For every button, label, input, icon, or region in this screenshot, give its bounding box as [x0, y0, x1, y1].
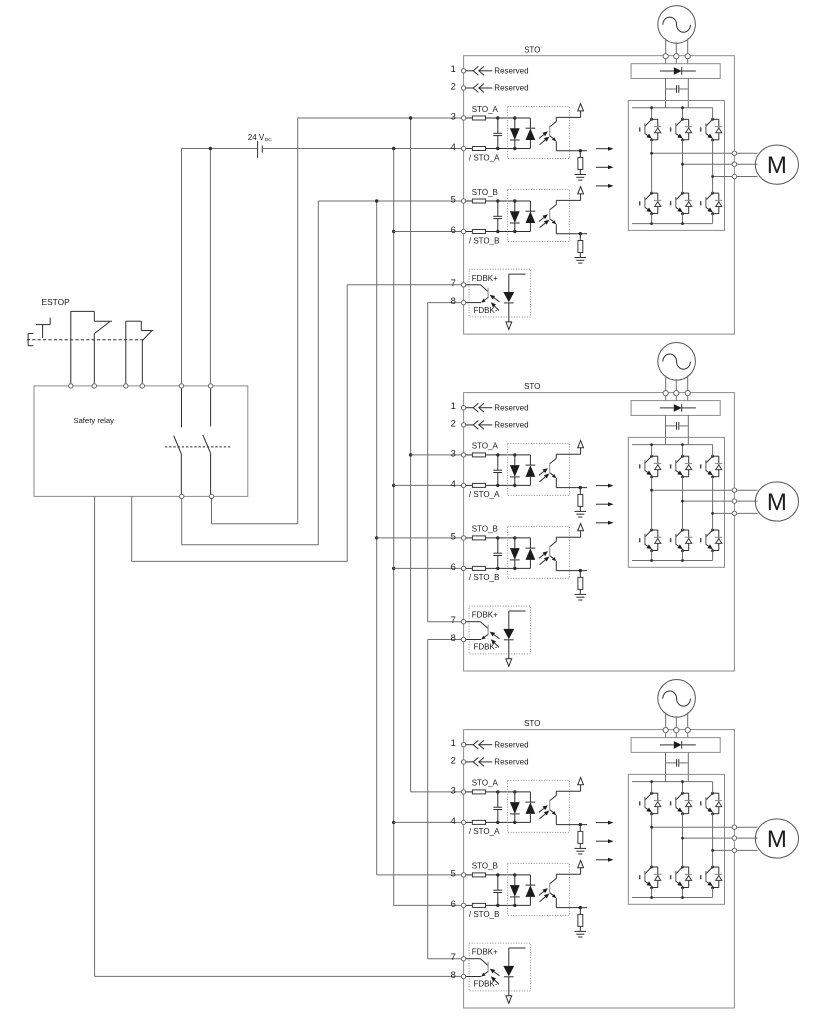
drive 3 AC input terminal 3: [685, 728, 690, 733]
drive 3 pin 2 terminal: [461, 760, 465, 764]
drive 1 pin 6 number: [451, 224, 456, 235]
drive 2 STO_A diode junctions: [513, 453, 516, 487]
drive 2 motor M: [755, 482, 798, 521]
drive 1 pin 4 number: [451, 141, 456, 152]
drive 1 STO_B output wire: [556, 232, 587, 235]
drive 3 STO_B supply arrow: [556, 861, 583, 875]
drive 1 STO_A series resistor -: [466, 147, 531, 151]
drive 1 pin 3 number: [451, 110, 456, 121]
drive 1 pin 2 Reserved label: [494, 84, 528, 93]
drive 2 FDBK - label: [474, 643, 498, 652]
drive 2 STO_A light arrows: [539, 468, 549, 482]
drive 3 inverter DC+ rail: [632, 781, 713, 783]
wire drive2 pin3 from bus: [411, 454, 462, 456]
relay contacts link (dashed): [165, 446, 231, 448]
drive 1 STO_A antiparallel diode down: [510, 118, 520, 149]
drive 3 pin 4 terminal: [461, 820, 465, 824]
drive 1 STO_A input filter capacitor: [493, 118, 502, 149]
junction STO_B at drive1 pin5: [375, 199, 378, 202]
drive 3 FDBK box: [469, 943, 530, 991]
drive 2 wire DC+ link: [665, 415, 667, 444]
svg-text:STO_A: STO_A: [472, 779, 499, 788]
wire drive2 pin6 from bus: [394, 567, 462, 569]
relay top terminal 3: [124, 384, 128, 388]
svg-text:/ STO_A: / STO_A: [469, 827, 500, 836]
drive 3 leg 1 mid wires: [651, 814, 653, 898]
drive 2 FDBK phototransistor: [466, 622, 488, 640]
drive 3 STO_B label: [472, 862, 498, 871]
drive 1 STO_B cap junctions: [496, 199, 499, 233]
drive 3 pin 5 number: [451, 867, 456, 878]
svg-text:STO_A: STO_A: [472, 105, 499, 114]
drive 3 motor terminal 1: [732, 825, 736, 829]
drive 3 STO_B inverse label: [469, 910, 500, 919]
drive 2 STO_B supply arrow: [556, 524, 583, 538]
drive 1 STO_B LED diode up: [526, 201, 536, 232]
svg-text:STO_B: STO_B: [472, 525, 498, 534]
drive 2 IGBT leg 1 high: [640, 455, 662, 479]
drive 2 motor lead 2: [737, 500, 758, 502]
drive 2 IGBT leg 2 high: [671, 455, 693, 479]
drive 1 pin 1 number: [451, 63, 456, 74]
drive 1 IGBT leg 1 low: [640, 192, 662, 216]
drive 1 STO_B series resistor +: [466, 199, 531, 203]
drive 3 pin 1 Reserved label: [494, 740, 528, 749]
svg-text:2: 2: [451, 80, 456, 91]
drive 2 enclosure box: [464, 393, 735, 671]
relay top terminal 1: [69, 384, 73, 388]
drive 2 rectifier diode: [660, 404, 696, 412]
drive 3 wire DC- link: [687, 752, 689, 781]
junction 0V at drive2 pin4: [392, 484, 395, 487]
drive 2 gate signal arrow 2: [596, 502, 614, 506]
svg-text:7: 7: [451, 951, 456, 962]
drive 3 leg 2 rail junctions: [681, 780, 684, 899]
drive 2 leg 2 rail junctions: [681, 443, 684, 562]
svg-text:1: 1: [451, 63, 456, 74]
drive 3 motor lead 3: [737, 849, 758, 851]
junction contact2 feed: [209, 147, 212, 150]
drive 1 STO_A series resistor +: [466, 116, 531, 120]
wire drive2 pin4 from bus: [394, 484, 462, 486]
drive 3 inverter DC- rail: [632, 897, 713, 899]
drive 2 FDBK common arrow: [506, 659, 512, 667]
drive 3 STO_A antiparallel diode down: [510, 792, 520, 823]
drive 3 motor M: [755, 819, 798, 858]
svg-text:6: 6: [451, 224, 456, 235]
drive 2 STO_B output wire: [556, 569, 587, 572]
drive 1 STO_A optocoupler box: [508, 107, 570, 159]
svg-text:1: 1: [451, 737, 456, 748]
drive 1 leg 3 mid wires: [712, 140, 714, 224]
drive 3 pin 2 Reserved label: [494, 758, 528, 767]
drive 1 rectifier diode: [660, 67, 696, 75]
drive 2 STO_B inverse label: [469, 573, 500, 582]
drive 1 wire DC+ link: [665, 79, 667, 108]
drive 2 pin 2 reserved input: [466, 421, 493, 430]
drive 2 wire AC phase 3: [687, 375, 689, 400]
ESTOP pushbutton actuator: [28, 318, 50, 346]
drive 3 phase 3 node: [711, 849, 714, 852]
drive 2 wire AC phase 2: [675, 379, 677, 401]
svg-text:Reserved: Reserved: [494, 740, 528, 749]
drive 2 STO_B ground: [574, 594, 586, 600]
drive 1 DC bus capacitor: [666, 85, 689, 93]
drive 3 motor lead 2: [737, 837, 758, 839]
wire 24V rail to contact feeds: [182, 148, 394, 150]
drive 3 FDBK - label: [474, 980, 498, 989]
drive 2 DC bus capacitor: [666, 422, 689, 430]
drive 2 pin 6 terminal: [461, 566, 465, 570]
drive 1 leg 3 collector wire: [712, 108, 714, 120]
relay top terminal 6: [208, 384, 212, 388]
drive 1 STO_B ground: [574, 258, 586, 264]
svg-text:M: M: [767, 489, 787, 516]
drive 2 STO_B pulldown resistor: [578, 571, 583, 595]
drive 2 STO_A LED diode up: [526, 455, 536, 486]
svg-text:5: 5: [451, 193, 456, 204]
drive 1 phase 2 output wire: [683, 163, 735, 165]
drive 2 inverter DC+ rail: [632, 444, 713, 446]
drive 2 pin 5 terminal: [461, 536, 465, 540]
wire drive3 pin6 from bus: [394, 904, 462, 906]
24 VDC label: [248, 133, 272, 143]
drive 3 pin 1 number: [451, 737, 456, 748]
drive 1 pin 5 number: [451, 193, 456, 204]
drive 3 IGBT leg 2 low: [671, 866, 693, 890]
drive 1 FDBK LED diode: [503, 274, 525, 322]
drive 1 STO_B label: [472, 188, 498, 197]
drive 3 STO_A cap junctions: [496, 790, 499, 824]
drive 1 rectifier box: [631, 64, 720, 79]
drive 1 phase 1 node: [650, 152, 653, 155]
ESTOP label: [42, 297, 71, 307]
drive 2 pin 1 terminal: [461, 406, 465, 410]
drive 3 STO_A light arrows: [539, 805, 549, 819]
drive 2 STO_A series resistor -: [466, 483, 531, 487]
drive 2 pin 3 number: [451, 447, 456, 458]
relay bottom terminal 1: [180, 494, 184, 498]
drive 3 wire AC phase 2: [675, 716, 677, 738]
drive 3 STO_A inverse label: [469, 827, 500, 836]
drive 3 enclosure box: [464, 730, 735, 1008]
drive 2 phase 3 node: [711, 512, 714, 515]
drive 3 pin 2 reserved input: [466, 758, 493, 767]
drive 3 FDBK light arrows: [490, 969, 500, 985]
drive 3 IGBT leg 2 high: [671, 792, 693, 816]
drive 1 leg 2 rail junctions: [681, 106, 684, 225]
wire contact2 feed: [209, 149, 211, 385]
svg-text:FDBK+: FDBK+: [472, 948, 498, 957]
drive 2 phase 2 node: [681, 500, 684, 503]
drive 3 phase 1 node: [650, 826, 653, 829]
svg-text:7: 7: [451, 614, 456, 625]
drive 2 wire AC phase 1: [665, 375, 667, 400]
wire relay out1 to STO_A rail: [212, 118, 463, 524]
drive 2 leg 2 mid wires: [682, 477, 684, 561]
drive 1 motor lead 2: [737, 163, 758, 165]
drive 1 wire DC- link: [687, 79, 689, 108]
drive 1 FDBK + label: [472, 274, 498, 283]
drive 2 leg 1 collector wire: [651, 445, 653, 457]
drive 2 leg 1 rail junctions: [650, 443, 653, 562]
svg-text:2: 2: [451, 754, 456, 765]
drive 1 pin 1 Reserved label: [494, 67, 528, 76]
svg-text:3: 3: [451, 447, 456, 458]
drive 3 AC source G1: [658, 680, 696, 718]
svg-text:DC: DC: [265, 137, 272, 143]
svg-text:Reserved: Reserved: [494, 758, 528, 767]
drive 1 STO_A output wire: [556, 149, 587, 152]
drive 2 FDBK box: [469, 606, 530, 654]
svg-text:FDBK-: FDBK-: [474, 980, 498, 989]
drive 1 pin 6 terminal: [461, 229, 465, 233]
drive 2 pin 2 terminal: [461, 423, 465, 427]
drive 2 STO_A phototransistor: [550, 454, 557, 487]
drive 2 phase 1 output wire: [652, 489, 735, 491]
Safety relay label: [73, 416, 114, 425]
drive 1 STO_A pulldown resistor: [578, 151, 583, 175]
drive 3 FDBK LED diode: [503, 948, 525, 996]
drive 3 gate signal arrow 2: [596, 839, 614, 843]
bus 0V vertical: [393, 149, 395, 906]
drive 1 STO_B antiparallel diode down: [510, 201, 520, 232]
drive 1 FDBK - label: [474, 306, 498, 315]
drive 1 leg 1 collector wire: [651, 108, 653, 120]
drive 3 motor terminal 3: [732, 848, 736, 852]
drive 1 inverter DC- rail: [632, 223, 713, 225]
drive 3 STO_A diode junctions: [513, 790, 516, 824]
drive 2 pin 8 number: [451, 632, 456, 643]
drive 1 IGBT leg 1 high: [640, 118, 662, 142]
svg-text:1: 1: [451, 400, 456, 411]
relay output contact 1: [174, 388, 182, 496]
drive 3 STO_A LED diode up: [526, 792, 536, 823]
drive 3 STO_A optocoupler box: [508, 780, 570, 832]
drive 1 motor terminal 1: [732, 151, 736, 155]
drive 3 STO_B light arrows: [539, 888, 549, 902]
junction STO_B at drive2 pin5: [375, 536, 378, 539]
drive 1 pin 3 terminal: [461, 116, 465, 120]
drive 2 gate signal arrow 1: [596, 484, 614, 488]
drive 2 FDBK + label: [472, 611, 498, 620]
drive 3 rectifier box: [631, 738, 720, 753]
drive 1 motor terminal 3: [732, 174, 736, 178]
wire feedback chain drive1 pin8 to drive2 pin7: [428, 303, 462, 622]
drive 1 gate signal arrow 2: [596, 165, 614, 169]
svg-text:FDBK+: FDBK+: [472, 611, 498, 620]
svg-text:/ STO_A: / STO_A: [469, 490, 500, 499]
drive 2 pin 6 number: [451, 561, 456, 572]
junction 0V at drive1 pin4: [392, 147, 395, 150]
drive 1 AC input terminal 3: [685, 54, 690, 59]
drive 2 STO_B light arrows: [539, 551, 549, 565]
drive 2 STO_B cap junctions: [496, 536, 499, 570]
drive 2 AC source G1: [658, 343, 696, 381]
drive 1 IGBT leg 2 high: [671, 118, 693, 142]
drive 1 STO_B input filter capacitor: [493, 201, 502, 232]
drive 1 gate signal arrow 3: [596, 184, 614, 188]
drive 1 gate signal arrow 1: [596, 147, 614, 151]
drive 1 STO label: [524, 45, 540, 54]
svg-text:5: 5: [451, 867, 456, 878]
svg-text:3: 3: [451, 110, 456, 121]
drive 2 pin 4 number: [451, 478, 456, 489]
svg-text:Reserved: Reserved: [494, 84, 528, 93]
drive 2 motor lead 1: [737, 489, 758, 491]
drive 3 FDBK phototransistor: [466, 959, 488, 977]
wire drive3 pin4 from bus: [394, 821, 462, 823]
drive 2 STO_A pulldown resistor: [578, 488, 583, 512]
svg-text:4: 4: [451, 478, 456, 489]
drive 2 STO label: [524, 382, 540, 391]
drive 3 STO label: [524, 719, 540, 728]
drive 1 leg 2 collector wire: [682, 108, 684, 120]
junction 0V at drive2 pin6: [392, 567, 395, 570]
drive 3 pin 6 number: [451, 898, 456, 909]
drive 3 STO_B diode junctions: [513, 873, 516, 907]
wire drive3 pin8 return to relay: [95, 496, 462, 976]
drive 1 phase 3 node: [711, 175, 714, 178]
drive 1 FDBK light arrows: [490, 295, 500, 311]
drive 2 STO_B LED diode up: [526, 538, 536, 569]
drive 1 STO_B pulldown resistor: [578, 234, 583, 258]
drive 1 STO_B series resistor -: [466, 230, 531, 234]
svg-text:/ STO_B: / STO_B: [469, 236, 500, 245]
drive 2 pin 7 terminal: [461, 620, 465, 624]
drive 1 phase 1 output wire: [652, 152, 735, 154]
drive 1 STO_A diode junctions: [513, 116, 516, 150]
drive 1 wire AC phase 3: [687, 39, 689, 64]
drive 3 phase 2 node: [681, 837, 684, 840]
svg-text:Reserved: Reserved: [494, 67, 528, 76]
drive 3 IGBT leg 3 low: [701, 866, 723, 890]
drive 1 pin 2 reserved input: [466, 84, 493, 93]
drive 2 pin 2 Reserved label: [494, 421, 528, 430]
drive 3 STO_B series resistor -: [466, 903, 531, 907]
drive 3 pin 8 terminal: [461, 974, 465, 978]
svg-text:STO_B: STO_B: [472, 862, 498, 871]
svg-text:Safety relay: Safety relay: [73, 416, 114, 425]
drive 2 STO_A ground: [574, 511, 586, 517]
drive 1 IGBT leg 2 low: [671, 192, 693, 216]
drive 1 pin 1 reserved input: [466, 66, 493, 75]
drive 2 STO_A antiparallel diode down: [510, 455, 520, 486]
drive 3 STO_B pulldown resistor: [578, 908, 583, 932]
junction 0V at drive3 pin4: [392, 821, 395, 824]
drive 2 leg 3 mid wires: [712, 477, 714, 561]
drive 2 pin 2 number: [451, 417, 456, 428]
drive 2 leg 3 collector wire: [712, 445, 714, 457]
svg-text:6: 6: [451, 561, 456, 572]
drive 3 STO_A phototransistor: [550, 791, 557, 824]
drive 2 motor terminal 1: [732, 488, 736, 492]
drive 1 pin 7 terminal: [461, 283, 465, 287]
svg-text:M: M: [767, 826, 787, 853]
drive 2 STO_A label: [472, 442, 499, 451]
drive 3 pin 3 number: [451, 784, 456, 795]
drive 3 phase 1 output wire: [652, 826, 735, 828]
svg-text:Reserved: Reserved: [494, 421, 528, 430]
drive 3 leg 3 mid wires: [712, 814, 714, 898]
drive 1 pin 5 terminal: [461, 199, 465, 203]
drive 1 motor lead 1: [737, 152, 758, 154]
svg-text:24 V: 24 V: [248, 133, 265, 142]
svg-text:7: 7: [451, 277, 456, 288]
drive 1 STO_B phototransistor: [550, 200, 557, 233]
drive 2 pin 1 number: [451, 400, 456, 411]
drive 3 pin 4 number: [451, 815, 456, 826]
svg-text:8: 8: [451, 632, 456, 643]
svg-text:FDBK+: FDBK+: [472, 274, 498, 283]
drive 3 STO_A ground: [574, 848, 586, 854]
drive 2 motor lead 3: [737, 512, 758, 514]
drive 2 IGBT leg 2 low: [671, 529, 693, 553]
drive 1 enclosure box: [464, 56, 735, 334]
drive 3 AC input terminal 1: [663, 728, 668, 733]
drive 2 STO_A supply arrow: [556, 441, 583, 455]
drive 3 leg 3 collector wire: [712, 782, 714, 794]
drive 2 pin 8 terminal: [461, 637, 465, 641]
svg-text:/ STO_B: / STO_B: [469, 573, 500, 582]
drive 1 inverter DC+ rail: [632, 107, 713, 109]
drive 3 wire AC phase 3: [687, 712, 689, 737]
drive 2 leg 1 mid wires: [651, 477, 653, 561]
drive 3 leg 1 collector wire: [651, 782, 653, 794]
drive 3 pin 2 number: [451, 754, 456, 765]
drive 2 phase 1 node: [650, 489, 653, 492]
drive 1 pin 1 terminal: [461, 69, 465, 73]
wire drive1 pin6 from bus: [394, 231, 462, 233]
drive 3 STO_A supply arrow: [556, 778, 583, 792]
relay output contact 2: [203, 388, 211, 496]
drive 2 phase 3 output wire: [713, 512, 735, 514]
drive 1 AC input terminal 2: [674, 54, 679, 59]
drive 1 FDBK common arrow: [506, 322, 512, 330]
drive 2 STO_A output wire: [556, 486, 587, 489]
drive 3 STO_B series resistor +: [466, 873, 531, 877]
wire relay out2 to STO_B rail: [182, 201, 462, 545]
drive 3 FDBK common arrow: [506, 996, 512, 1004]
drive 3 wire AC phase 1: [665, 712, 667, 737]
drive 2 AC input terminal 2: [674, 391, 679, 396]
drive 1 AC source G1: [658, 6, 696, 44]
safety relay box: [34, 386, 248, 497]
wire drive2 pin5 from bus: [377, 537, 462, 539]
drive 1 IGBT leg 3 high: [701, 118, 723, 142]
drive 1 STO_A phototransistor: [550, 117, 557, 150]
drive 1 STO_A cap junctions: [496, 116, 499, 150]
junction 0V at drive1 pin6: [392, 230, 395, 233]
drive 3 STO_B cap junctions: [496, 873, 499, 907]
drive 3 pin 7 number: [451, 951, 456, 962]
drive 3 inverter box: [628, 774, 724, 904]
svg-text:2: 2: [451, 417, 456, 428]
svg-text:FDBK-: FDBK-: [474, 306, 498, 315]
drive 1 STO_A ground: [574, 175, 586, 181]
drive 3 IGBT leg 1 low: [640, 866, 662, 890]
drive 2 pin 4 terminal: [461, 483, 465, 487]
drive 2 STO_A inverse label: [469, 490, 500, 499]
drive 3 wire DC+ link: [665, 752, 667, 781]
svg-text:5: 5: [451, 530, 456, 541]
drive 1 motor lead 3: [737, 176, 758, 178]
drive 2 STO_B series resistor -: [466, 566, 531, 570]
drive 2 rectifier box: [631, 401, 720, 416]
drive 3 gate signal arrow 1: [596, 821, 614, 825]
wire drive3 pin5 from bus: [377, 874, 462, 876]
drive 3 leg 2 mid wires: [682, 814, 684, 898]
